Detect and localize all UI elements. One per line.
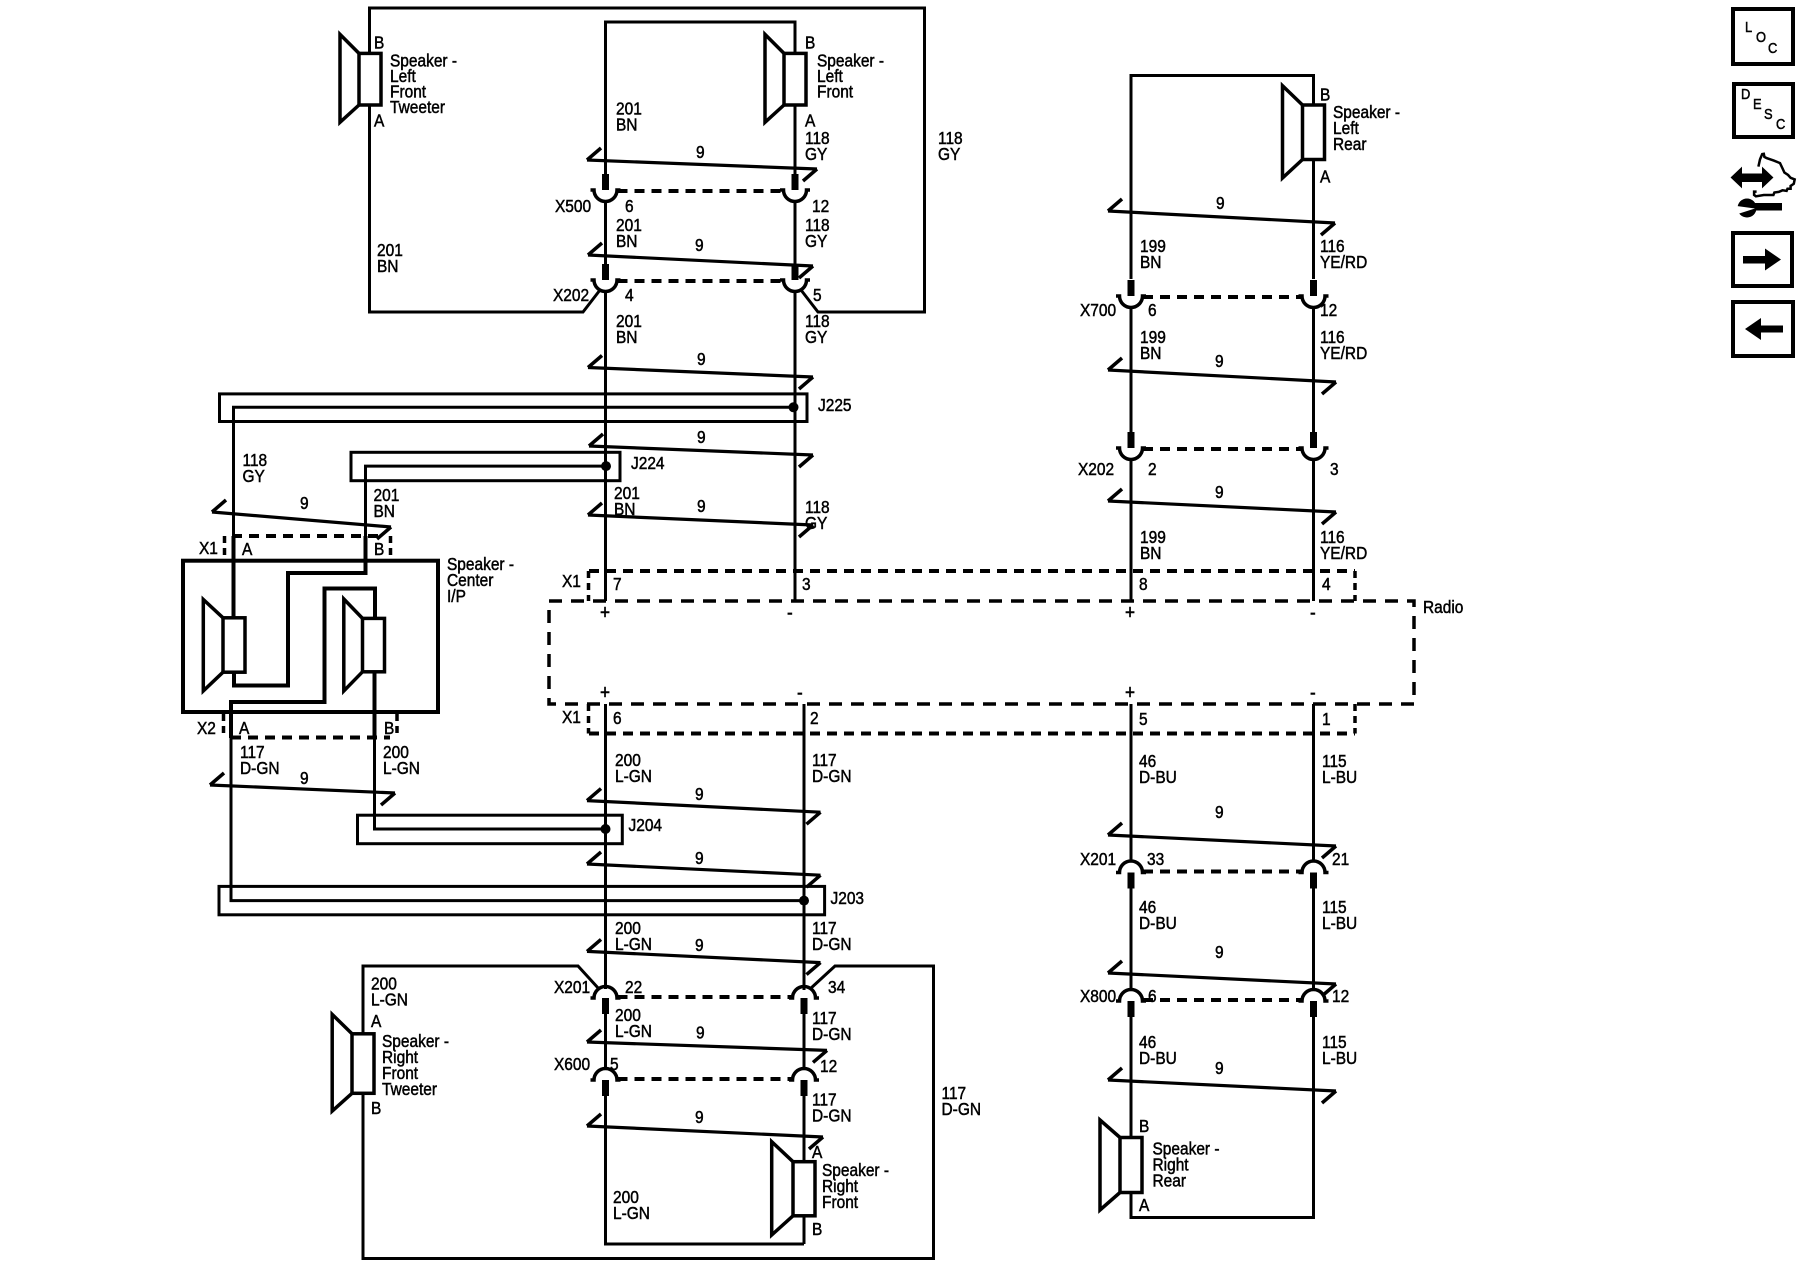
connector X202 pin 3 <box>1310 432 1317 448</box>
svg-text:9: 9 <box>696 142 705 162</box>
icon forward arrow button <box>1733 233 1792 286</box>
svg-text:X500: X500 <box>555 196 591 216</box>
svg-text:D: D <box>1741 85 1750 102</box>
svg-text:GY: GY <box>805 327 827 347</box>
speaker Left Front <box>765 34 784 122</box>
splice J204 internal wire from X2-B <box>375 816 606 829</box>
svg-text:D-GN: D-GN <box>812 1024 852 1044</box>
splice J203 housing <box>219 886 825 914</box>
svg-text:D-GN: D-GN <box>812 934 852 954</box>
svg-text:33: 33 <box>1147 849 1164 869</box>
wire 200 L-GN X201-22 to X600-5 <box>604 1014 607 1068</box>
svg-text:Tweeter: Tweeter <box>382 1079 437 1099</box>
junction dot J204 <box>601 824 611 834</box>
connector X700 pin 6 <box>1128 280 1135 296</box>
svg-text:X1: X1 <box>562 571 581 591</box>
wire 117 D-GN X201-34 to X600-12 <box>803 1014 806 1068</box>
twisted pair 9 <box>210 785 395 793</box>
svg-text:21: 21 <box>1332 849 1349 869</box>
wire 46 D-BU radio X1-5 down to X201-33 <box>1130 704 1133 861</box>
speaker center left <box>203 600 223 691</box>
wire X2-B to center right speaker bottom <box>373 672 377 738</box>
splice J225 internal wire to X1-A <box>234 407 794 536</box>
wire 118 GY left front A down to X500-12 <box>794 105 797 174</box>
wire 116 YE/RD left rear A down to X700-12 <box>1312 160 1315 280</box>
speaker Left Rear <box>1283 86 1303 178</box>
wire 199 BN left rear B: top edge + left edge down to X700-6 <box>1131 76 1314 280</box>
connector X2 dashed line <box>231 736 390 740</box>
twisted pair 9 <box>1108 370 1336 382</box>
splice J203 internal wire from X2-A <box>231 887 804 901</box>
svg-text:9: 9 <box>1215 802 1224 822</box>
connector X201 dashed mating line <box>1143 870 1302 874</box>
svg-text:12: 12 <box>820 1056 837 1076</box>
svg-text:X2: X2 <box>197 718 216 738</box>
svg-text:12: 12 <box>1320 300 1337 320</box>
twisted pair 9 <box>587 1126 823 1137</box>
svg-text:2: 2 <box>810 708 819 728</box>
splice J225 housing <box>220 394 808 422</box>
svg-text:9: 9 <box>1215 1058 1224 1078</box>
wire 116 YE/RD X700-12 to X202-3 <box>1312 307 1315 432</box>
svg-text:X600: X600 <box>554 1054 590 1074</box>
svg-text:C: C <box>1768 39 1777 56</box>
connector X800 dashed mating line <box>1143 998 1302 1002</box>
wire 117 D-GN radio X1-2 down through J203 to X201-34 <box>803 704 806 990</box>
svg-text:+: + <box>600 681 610 704</box>
svg-text:9: 9 <box>1215 482 1224 502</box>
wire 46 D-BU X201-33 to X800-6 <box>1130 888 1133 990</box>
svg-text:E: E <box>1753 95 1762 112</box>
svg-text:D-GN: D-GN <box>812 766 852 786</box>
svg-text:L-BU: L-BU <box>1322 767 1357 787</box>
wire 115 L-BU X201-21 to X800-12 <box>1312 888 1315 990</box>
svg-text:12: 12 <box>812 196 829 216</box>
svg-text:9: 9 <box>695 1107 704 1127</box>
svg-text:Rear: Rear <box>1333 134 1367 154</box>
svg-text:BN: BN <box>616 115 637 135</box>
connector X202 pin 2 <box>1128 432 1135 448</box>
connector X500 pin 12 <box>792 174 799 190</box>
twisted pair 9 <box>587 160 817 169</box>
junction dot J224 <box>601 461 611 471</box>
svg-text:L-GN: L-GN <box>371 989 408 1009</box>
svg-text:L-GN: L-GN <box>613 1203 650 1223</box>
svg-text:+: + <box>1125 601 1135 624</box>
svg-text:9: 9 <box>695 848 704 868</box>
svg-text:22: 22 <box>625 977 642 997</box>
connector X1 radio top dashed line <box>589 569 1355 573</box>
svg-text:B: B <box>371 1098 381 1118</box>
connector X202 pin 4 <box>602 264 609 280</box>
svg-text:O: O <box>1756 28 1766 45</box>
svg-text:4: 4 <box>1322 574 1331 594</box>
svg-text:S: S <box>1764 105 1773 122</box>
svg-text:9: 9 <box>300 768 309 788</box>
svg-text:+: + <box>1125 681 1135 704</box>
svg-text:BN: BN <box>616 327 637 347</box>
twisted pair 9 <box>589 446 813 455</box>
connector X1 radio bottom end ticks <box>587 704 591 734</box>
svg-text:L-BU: L-BU <box>1322 913 1357 933</box>
connector X600 pin 5 <box>602 1080 609 1096</box>
radio dashed box <box>549 601 1414 704</box>
svg-text:GY: GY <box>938 144 960 164</box>
svg-text:I/P: I/P <box>447 586 466 606</box>
svg-text:6: 6 <box>1148 986 1157 1006</box>
wire 200 L-GN X2-B down to J204 <box>373 738 376 816</box>
wire 199 BN X700-6 to X202-2 <box>1130 307 1133 432</box>
connector X202 dashed mating line <box>618 279 784 283</box>
svg-text:9: 9 <box>1216 193 1225 213</box>
svg-text:Rear: Rear <box>1153 1170 1187 1190</box>
svg-text:3: 3 <box>802 574 811 594</box>
svg-text:L-GN: L-GN <box>383 758 420 778</box>
speaker Right Front <box>772 1142 793 1235</box>
svg-text:J204: J204 <box>629 815 663 835</box>
svg-text:GY: GY <box>805 231 827 251</box>
twisted pair 9 <box>212 512 391 527</box>
svg-text:12: 12 <box>1332 986 1349 1006</box>
svg-text:B: B <box>805 32 815 52</box>
connector X1 end ticks <box>223 536 227 556</box>
speaker Right Rear <box>1100 1120 1120 1210</box>
connector X600 pin 12 <box>801 1080 808 1096</box>
svg-text:Front: Front <box>822 1192 858 1212</box>
svg-text:BN: BN <box>377 256 398 276</box>
svg-text:A: A <box>374 111 385 131</box>
svg-text:BN: BN <box>374 501 395 521</box>
svg-text:A: A <box>242 539 253 559</box>
svg-text:4: 4 <box>625 285 634 305</box>
twisted pair 9 <box>588 515 813 525</box>
svg-text:J224: J224 <box>631 453 665 473</box>
wire 115 L-BU X800-12 down to right rear speaker A loop <box>1131 1017 1314 1218</box>
wire 117 D-GN X2-A down to J203 <box>230 738 233 887</box>
connector X800 pin 12 <box>1310 1001 1317 1017</box>
svg-text:2: 2 <box>1148 459 1157 479</box>
connector X600 dashed mating line <box>618 1077 793 1081</box>
wire X1-A to center left speaker top <box>232 536 236 618</box>
svg-text:D-GN: D-GN <box>240 758 280 778</box>
wire 201 BN left front B: top edge + left edge down to X500-6 <box>606 22 796 174</box>
splice J224 housing <box>351 452 620 480</box>
svg-text:X201: X201 <box>554 977 590 997</box>
svg-text:BN: BN <box>616 231 637 251</box>
svg-text:X202: X202 <box>1078 459 1114 479</box>
svg-text:9: 9 <box>300 493 309 513</box>
connector X2 end ticks <box>222 714 226 738</box>
svg-text:L-BU: L-BU <box>1322 1048 1357 1068</box>
speaker center right <box>344 599 363 691</box>
twisted pair 9 <box>588 368 813 378</box>
svg-text:9: 9 <box>695 235 704 255</box>
wire 117 D-GN tweeter B: down, bottom edge, right edge, top edge to X201-34 <box>363 966 934 1259</box>
wire 115 L-BU radio X1-1 down to X201-21 <box>1312 704 1315 861</box>
svg-text:GY: GY <box>243 466 265 486</box>
twisted pair 9 <box>1108 835 1336 846</box>
svg-text:5: 5 <box>813 285 822 305</box>
svg-text:YE/RD: YE/RD <box>1320 252 1367 272</box>
svg-text:6: 6 <box>613 708 622 728</box>
wire 200 L-GN tweeter A: left edge + top edge to X201-22 <box>363 966 599 1034</box>
svg-text:5: 5 <box>610 1054 619 1074</box>
svg-text:A: A <box>371 1011 382 1031</box>
speaker Left Front Tweeter <box>340 34 359 122</box>
connector X1 dashed line (center speaker) <box>232 534 383 538</box>
connector X201 pin 22 <box>602 998 609 1014</box>
connector X500 dashed mating line <box>618 189 784 193</box>
svg-text:D-GN: D-GN <box>942 1099 982 1119</box>
svg-text:B: B <box>812 1219 822 1239</box>
connector X700 pin 12 <box>1310 280 1317 296</box>
svg-text:9: 9 <box>696 1023 705 1043</box>
icon back arrow button <box>1733 302 1793 356</box>
twisted pair 9 <box>1108 973 1336 984</box>
connector X201 pin 34 <box>801 998 808 1014</box>
connector X1 radio top end ticks <box>587 571 591 601</box>
svg-text:L-GN: L-GN <box>615 1021 652 1041</box>
wire 199 BN X202-2 down to radio X1-8 <box>1130 459 1133 601</box>
svg-text:-: - <box>797 681 803 704</box>
svg-text:3: 3 <box>1330 459 1339 479</box>
svg-text:X201: X201 <box>1080 849 1116 869</box>
svg-text:9: 9 <box>695 935 704 955</box>
svg-text:J203: J203 <box>831 888 865 908</box>
icon LOC button <box>1733 9 1793 64</box>
box Speaker Center I/P <box>183 561 438 712</box>
twisted pair 9 <box>587 951 821 962</box>
svg-text:GY: GY <box>805 144 827 164</box>
connector X202 pin 5 <box>792 264 799 280</box>
wire 46 D-BU X800-6 down to right rear speaker B <box>1130 1017 1133 1138</box>
svg-text:C: C <box>1776 115 1785 132</box>
wire X2-A to center right speaker top <box>231 589 375 739</box>
twisted pair 9 <box>587 1042 827 1050</box>
icon double arrow with vehicle outline and wrench <box>1732 154 1795 218</box>
twisted pair 9 <box>587 801 821 813</box>
svg-text:Radio: Radio <box>1423 597 1463 617</box>
connector X202 dashed mating line <box>1143 447 1302 451</box>
svg-text:X800: X800 <box>1080 986 1116 1006</box>
svg-text:L-GN: L-GN <box>615 934 652 954</box>
twisted pair 9 <box>1108 501 1336 512</box>
svg-text:9: 9 <box>1215 351 1224 371</box>
svg-text:X700: X700 <box>1080 300 1116 320</box>
svg-text:6: 6 <box>625 196 634 216</box>
svg-text:-: - <box>787 601 793 624</box>
svg-text:-: - <box>1310 681 1316 704</box>
svg-text:BN: BN <box>1140 543 1161 563</box>
svg-text:X1: X1 <box>199 538 218 558</box>
svg-text:D-BU: D-BU <box>1139 767 1177 787</box>
svg-text:9: 9 <box>697 349 706 369</box>
svg-text:J225: J225 <box>818 395 852 415</box>
wire 201 BN X500-6 to X202-4 <box>604 201 607 265</box>
wire 116 YE/RD X202-3 down to radio X1-4 <box>1312 459 1315 601</box>
svg-text:-: - <box>1310 601 1316 624</box>
connector X500 pin 6 <box>602 174 609 190</box>
svg-text:X1: X1 <box>562 707 581 727</box>
wire 201 BN tweeter A: left edge + bottom edge to X202 pin 4 <box>370 105 601 312</box>
connector X201 dashed mating line <box>618 995 793 999</box>
wire 118 GY X500-12 to X202-5 <box>794 201 797 265</box>
svg-text:Tweeter: Tweeter <box>390 97 445 117</box>
speaker Right Front Tweeter <box>332 1014 352 1111</box>
svg-text:9: 9 <box>1215 942 1224 962</box>
svg-text:9: 9 <box>697 496 706 516</box>
connector X201 pin 21 <box>1310 873 1317 889</box>
svg-text:L: L <box>1745 18 1752 35</box>
svg-text:B: B <box>1139 1116 1149 1136</box>
svg-text:A: A <box>1320 166 1331 186</box>
twisted pair 9 <box>1108 211 1335 223</box>
svg-text:D-GN: D-GN <box>812 1105 852 1125</box>
svg-text:BN: BN <box>1140 343 1161 363</box>
svg-text:8: 8 <box>1139 574 1148 594</box>
svg-text:9: 9 <box>697 427 706 447</box>
wire X1-B to center left speaker bottom (s-path) <box>234 536 366 686</box>
svg-text:B: B <box>374 32 384 52</box>
wire 118 GY tweeter B: up, top edge, right edge, bottom to X202 pin 5 <box>370 8 925 312</box>
svg-text:YE/RD: YE/RD <box>1320 343 1367 363</box>
junction dot J225 <box>789 402 799 412</box>
svg-text:34: 34 <box>828 977 845 997</box>
connector X700 dashed mating line <box>1143 295 1302 299</box>
connector X800 pin 6 <box>1128 1001 1135 1017</box>
svg-text:BN: BN <box>1140 252 1161 272</box>
wire 200 L-GN X600-5 down to right front speaker B loop <box>606 1096 805 1244</box>
twisted pair 9 <box>587 864 821 875</box>
svg-text:D-BU: D-BU <box>1139 913 1177 933</box>
connector X1 radio bottom dashed line <box>589 732 1355 736</box>
svg-text:D-BU: D-BU <box>1139 1048 1177 1068</box>
svg-text:6: 6 <box>1148 300 1157 320</box>
svg-text:9: 9 <box>695 784 704 804</box>
svg-text:YE/RD: YE/RD <box>1320 543 1367 563</box>
svg-text:Front: Front <box>817 81 853 101</box>
svg-text:5: 5 <box>1139 709 1148 729</box>
svg-text:1: 1 <box>1322 709 1331 729</box>
svg-text:B: B <box>1320 84 1330 104</box>
svg-text:B: B <box>384 718 394 738</box>
svg-text:L-GN: L-GN <box>615 766 652 786</box>
wire 201 BN X202-4 down to radio X1-7 <box>604 291 607 601</box>
junction dot J203 <box>799 896 809 906</box>
twisted pair 9 <box>1108 1080 1336 1091</box>
svg-text:7: 7 <box>613 574 622 594</box>
splice J204 housing <box>358 815 623 844</box>
wire 118 GY X202-5 down to radio X1-3 <box>794 291 797 601</box>
splice J224 internal wire to X1-B <box>366 466 607 536</box>
svg-text:A: A <box>1139 1195 1150 1215</box>
wire right front speaker B to bottom loop <box>803 1216 806 1244</box>
icon DESC button <box>1734 84 1793 137</box>
wire 200 L-GN radio X1-6 down through J204 to X201-22 <box>604 704 607 989</box>
svg-text:B: B <box>374 539 384 559</box>
svg-text:X202: X202 <box>553 285 589 305</box>
svg-text:+: + <box>600 601 610 624</box>
wire 117 D-GN X600-12 down to right front speaker A <box>803 1096 806 1162</box>
twisted pair 9 <box>588 255 813 266</box>
connector X201 pin 33 <box>1128 873 1135 889</box>
svg-text:A: A <box>239 718 250 738</box>
